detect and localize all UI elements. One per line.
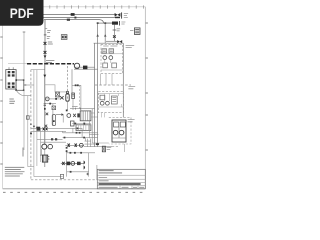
junction ticks on header y23 — [97, 22, 99, 24]
riser x=72 — [71, 69, 73, 93]
link y=134.3 — [89, 133, 98, 135]
lower header — [101, 69, 123, 71]
manifold top row line B — [31, 130, 66, 132]
riser ends x=87.7 x=90.7 — [88, 139, 91, 147]
dark unit box on manifold — [37, 127, 41, 131]
lower unit boxes — [103, 63, 108, 68]
capsule drop line — [67, 101, 69, 110]
pipe main supply line — [43, 13, 116, 15]
storage tank T-1 — [112, 120, 126, 142]
dots on lower link — [74, 123, 76, 125]
title block row rules — [97, 175, 145, 185]
feed line y=163.4 — [61, 162, 84, 164]
meter circle on make-up line — [79, 143, 83, 147]
pump arcs pair — [84, 160, 86, 164]
tank drain stub — [124, 144, 126, 152]
pipe size tag on supply line — [71, 13, 75, 16]
bottom line y=176.6 — [34, 176, 63, 178]
side marks right of blowdown — [48, 157, 50, 160]
2nd floor dashed line — [95, 84, 131, 86]
air separator capsule — [66, 94, 69, 101]
pipe branch line — [44, 20, 112, 24]
group2 lower header — [98, 106, 123, 108]
junction dot on manifold — [49, 103, 51, 105]
group2 internal risers — [104, 94, 121, 107]
drain drop — [44, 162, 46, 167]
dash mark on riser — [113, 29, 117, 31]
valve V2 at branch end — [112, 22, 118, 25]
title block dense title row — [99, 183, 141, 185]
header pipe to risers — [98, 22, 112, 24]
boiler drain arc — [16, 90, 31, 95]
pump circle PA — [45, 97, 49, 101]
internal header line — [101, 53, 123, 55]
riser x=27.8 — [27, 96, 29, 167]
drop x=80.9 — [80, 85, 82, 110]
valve V3 on connecting pipe — [83, 66, 87, 70]
manifold top row line A — [31, 127, 66, 129]
tick at top of lone riser — [23, 31, 26, 33]
tag on branch line — [67, 19, 70, 21]
sheet left border — [2, 7, 4, 189]
junction marks top x=66.6 — [66, 147, 68, 149]
riser x=36.9 — [36, 70, 38, 166]
boiler room dashed boundary line — [8, 63, 27, 65]
valve X left of feeder — [46, 113, 49, 116]
junction dots on link — [70, 152, 72, 154]
link line y=132.8 — [63, 132, 98, 134]
boiler outlet pipe — [24, 84, 34, 86]
stubs from HX to risers — [91, 113, 98, 117]
drop from manifold — [52, 104, 54, 126]
small unit box below pump — [71, 121, 75, 126]
junction box at end of y=176.6 — [60, 174, 63, 178]
dashed drop x=79.6 — [79, 85, 81, 110]
return line y=137.6 — [63, 137, 98, 139]
drops from pump circles — [42, 149, 45, 155]
dot on riser x=33.9 — [33, 126, 35, 128]
suction line with arrow — [56, 114, 61, 116]
junction dots on y85.3 stub — [72, 84, 81, 86]
MV label left of stamp — [130, 29, 133, 31]
control box C2 — [109, 49, 114, 53]
burner box right of boiler — [16, 80, 24, 90]
chemical feeder tall pot — [52, 115, 55, 126]
make-up water line — [65, 144, 84, 146]
tank zone dashed — [109, 117, 131, 144]
label 2 — [47, 37, 50, 39]
junction dot under capsule — [66, 110, 68, 112]
dot on feeder — [53, 120, 55, 122]
vertical label on lone riser — [22, 148, 24, 157]
riser continues below meter — [72, 99, 74, 111]
pump circles in WSHP — [103, 56, 107, 60]
valve X at pump outlet — [73, 114, 76, 117]
tank center pipe — [112, 127, 126, 138]
boiler B-1 shell — [6, 70, 16, 89]
right border tick marks — [146, 23, 148, 150]
boiler inlet stubs — [9, 67, 13, 69]
group2 dashed enclosure — [98, 92, 123, 113]
left border tick marks — [0, 37, 2, 164]
link y=143 — [92, 142, 109, 144]
tick on main riser — [45, 27, 47, 29]
elbow drop x=82.1 — [81, 128, 83, 137]
flow arrows on riser pair — [96, 34, 99, 37]
junction dots on return — [64, 137, 66, 139]
riser x=96.9 — [96, 165, 98, 180]
pumps in group2 — [100, 101, 104, 105]
MV note stamp box top right — [134, 28, 140, 35]
intermediate riser x=92.2 — [91, 109, 93, 143]
manifold mid line — [37, 138, 63, 140]
drop from suction line — [62, 115, 64, 123]
PDF badge — [0, 0, 44, 26]
burner outlet tick — [24, 84, 27, 86]
vent circle on capsule — [66, 91, 68, 93]
lower link line y=123.5 — [72, 123, 91, 125]
ticks on header — [76, 108, 81, 110]
dark junction blob — [96, 143, 99, 145]
lone riser x=24 — [23, 32, 25, 150]
pump circle PB — [67, 114, 71, 118]
heat exchanger HX-2 — [76, 125, 91, 131]
flow arrow on main riser lower — [43, 75, 46, 78]
connecting pipes to risers — [74, 67, 98, 69]
WSHP label right — [126, 45, 135, 47]
boiler label B-1 — [9, 99, 15, 103]
meter box on riser x=27.8 — [26, 116, 29, 119]
tank label — [128, 120, 135, 122]
short links y=141.1 y=144.1 — [85, 141, 97, 144]
tank internal boxes — [114, 122, 119, 127]
gauge circle on feed line — [71, 162, 75, 166]
unit box G2-2 — [111, 96, 117, 104]
marks on mid line — [51, 138, 53, 140]
line y=171.8 — [67, 171, 89, 173]
bowtie valve on header — [117, 40, 122, 43]
label right of V2 — [121, 22, 125, 24]
riser drops center — [73, 128, 86, 141]
label N2 — [47, 31, 51, 33]
pipe main return line — [43, 17, 117, 19]
boiler B-1 top valve pair — [8, 71, 11, 73]
main left riser — [44, 20, 46, 64]
unit box G2-1 — [100, 95, 105, 100]
dashed vertical boundary x=67.6 — [67, 66, 69, 100]
valves on make-up line — [68, 144, 77, 147]
center manifold line y=103.6 — [45, 103, 56, 105]
title block frame — [97, 169, 145, 189]
heat exchanger HX-1 — [80, 111, 91, 121]
drops below WSHP box — [101, 74, 113, 85]
note text right of box — [107, 148, 112, 150]
title block text lines — [99, 171, 123, 173]
link line y=152.8 — [67, 152, 95, 154]
riser WSHP feed x=114.4 — [113, 25, 115, 42]
main riser lower part — [44, 64, 46, 145]
header line y=108.6 — [70, 108, 95, 110]
boiler B-1 lower valve pair — [8, 82, 11, 84]
dashed zone boundary — [30, 70, 32, 180]
tank pumps — [113, 130, 118, 135]
valve X on riser — [113, 35, 116, 37]
title block bottom row texts — [99, 186, 145, 188]
svg-text:PDF: PDF — [10, 5, 34, 21]
valve X1 on main riser — [44, 42, 47, 45]
junction dot on it — [77, 128, 79, 130]
sheet bottom border — [3, 188, 146, 190]
bowtie valve center — [60, 96, 64, 99]
trap loop at boundary end — [74, 63, 79, 68]
stub at left of blowdown — [40, 154, 48, 156]
branch to valve box — [45, 85, 68, 92]
bottom margin tick row — [3, 191, 142, 193]
header in group2 — [98, 93, 123, 95]
dark dot on main riser — [44, 108, 46, 110]
valve box on branch — [56, 92, 60, 97]
detail box with X — [102, 146, 105, 152]
junction dots on link — [76, 132, 78, 134]
dot on y=171.8 — [70, 171, 72, 173]
right riser x=123.3 — [122, 43, 124, 117]
flow arrow on main riser — [44, 55, 47, 58]
control box C1 — [102, 49, 107, 53]
mark on main riser — [44, 104, 46, 106]
dark dash on boundary — [30, 133, 32, 135]
pump cross mark — [86, 173, 88, 175]
end stub tick V1 — [121, 12, 123, 18]
dashed boundary bottom corner — [31, 179, 97, 181]
junction dot on return line — [74, 17, 76, 19]
2nd floor label — [128, 87, 135, 89]
notes text block bottom-left — [5, 167, 25, 176]
label right of riser — [117, 29, 121, 31]
burner box corner dots — [15, 79, 17, 81]
dash mark — [44, 34, 47, 36]
label right of V1 — [124, 14, 128, 18]
top border tick marks — [7, 5, 144, 8]
tiny label above header — [72, 105, 78, 107]
small box below manifold — [52, 106, 56, 110]
end tick V2 — [119, 21, 121, 26]
sheet top border — [3, 6, 146, 8]
tick on boundary — [30, 123, 32, 125]
title block cell dividers — [120, 186, 138, 189]
drops from pumps — [105, 60, 111, 64]
junction dot — [55, 98, 57, 100]
drop riser x=105.2 — [104, 23, 106, 43]
sheet right border — [144, 7, 146, 189]
long riser pair right — [94, 43, 96, 147]
blowdown separator dark box — [42, 155, 47, 162]
dark coupling blob — [77, 113, 80, 117]
riser x=40.6 — [40, 128, 42, 162]
riser header at y=69.6 — [31, 69, 45, 71]
long horizontal y=146.7 — [84, 146, 112, 148]
distribution line y=128.5 right part — [66, 127, 82, 129]
intermediate riser x=89.3 — [88, 121, 90, 138]
label at X1 — [48, 42, 53, 44]
link line pumps — [45, 98, 60, 100]
manifold lower line — [41, 141, 66, 143]
strainer dark mark — [77, 162, 81, 165]
header lines over WSHP — [94, 42, 124, 44]
gauge stamp PI — [61, 35, 67, 40]
BOILER RM label — [46, 61, 54, 63]
valve X lower left of feeder — [45, 125, 48, 128]
riser x=88.6 — [88, 153, 90, 177]
dark regulator on feed line — [66, 162, 70, 166]
dot on riser x=36.9 — [36, 127, 38, 129]
narrow meter box on riser x=73 — [72, 93, 75, 99]
valve crosses on manifold — [43, 128, 48, 131]
group2 to tank links — [102, 113, 105, 118]
valve X2 on main riser — [44, 51, 47, 54]
WSHP dashed enclosure — [101, 44, 123, 73]
riser x=33.9 — [33, 70, 35, 177]
vertical x=66.6 — [66, 150, 68, 177]
bottom link y=166.7 — [28, 166, 34, 168]
valve V1 at supply line end — [115, 13, 121, 17]
pump circles PC1 PC2 — [42, 144, 47, 149]
valve X on feed line — [62, 162, 64, 165]
WSHP label inside — [103, 45, 117, 47]
